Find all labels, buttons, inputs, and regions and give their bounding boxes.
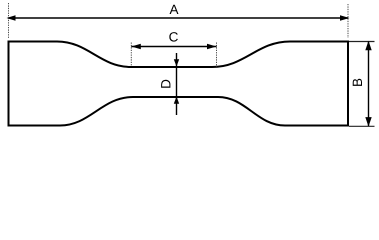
dimension line B	[368, 42, 370, 127]
dimension line C	[131, 46, 216, 48]
extension line top (B)	[349, 41, 375, 43]
extension line bottom (B)	[349, 125, 375, 127]
arrowhead D bottom (pointing up)	[174, 97, 179, 104]
extension line right (C)	[216, 43, 218, 68]
arrowhead C right	[207, 44, 217, 50]
arrowhead B top (pointing up)	[365, 41, 371, 51]
label A	[170, 5, 179, 14]
dimension line A	[9, 17, 349, 19]
label B (rotated)	[353, 79, 362, 86]
arrowhead C left	[131, 44, 141, 50]
extension line right (A)	[347, 4, 349, 38]
extension line left (C)	[130, 43, 132, 67]
label D (rotated)	[161, 80, 170, 88]
arrowhead B bottom (pointing down)	[365, 117, 371, 127]
dimension line D vertical	[176, 53, 178, 115]
specimen dogbone outline	[9, 42, 349, 126]
arrowhead D top (pointing down)	[174, 59, 179, 66]
arrowhead A right	[340, 15, 350, 21]
label C	[169, 32, 178, 42]
extension line left (A)	[8, 3, 10, 38]
arrowhead A left	[7, 15, 16, 21]
